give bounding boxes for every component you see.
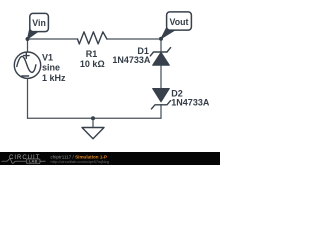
voltage source V1 <box>14 52 40 78</box>
net flag Vout <box>161 12 191 39</box>
wire top rail right (resistor to node B) <box>107 38 161 40</box>
wire left branch lower (V1 bottom to bottom rail) <box>27 78 29 118</box>
watermark bar <box>0 152 220 165</box>
svg-text:10 kΩ: 10 kΩ <box>80 59 105 69</box>
svg-text:1 kHz: 1 kHz <box>42 73 66 83</box>
svg-text:http://circuitlab.com/c/qe57wj: http://circuitlab.com/c/qe57wjNzg <box>51 159 109 164</box>
svg-text:Vin: Vin <box>32 18 46 28</box>
node B junction dot <box>159 37 163 41</box>
net flag Vin <box>28 13 49 39</box>
svg-text:1N4733A: 1N4733A <box>112 55 151 65</box>
wire D1 anode to D2 anode <box>160 65 162 88</box>
wire node B down to D1 <box>160 39 162 52</box>
CircuitLab logo waveform line <box>2 159 27 164</box>
svg-text:sine: sine <box>42 63 60 73</box>
wire D2 cathode to bottom rail <box>160 105 162 119</box>
ground <box>82 128 104 139</box>
svg-text:V1: V1 <box>42 52 53 62</box>
zener diode D2 <box>151 89 170 109</box>
wire ground stub <box>92 118 94 127</box>
svg-text:Vout: Vout <box>170 17 189 27</box>
node A junction dot <box>26 37 30 41</box>
wire top rail left (node A to resistor) <box>28 38 78 40</box>
CircuitLab logo LAB box <box>27 159 41 164</box>
svg-text:1N4733A: 1N4733A <box>171 98 210 108</box>
svg-text:R1: R1 <box>86 49 98 59</box>
zener diode D1 <box>150 48 170 66</box>
resistor R1 <box>78 32 107 44</box>
wire bottom rail <box>28 117 162 119</box>
svg-text:LAB: LAB <box>29 160 38 164</box>
wire left branch upper (node A down to V1 top) <box>27 39 29 52</box>
ground junction dot <box>91 116 95 120</box>
